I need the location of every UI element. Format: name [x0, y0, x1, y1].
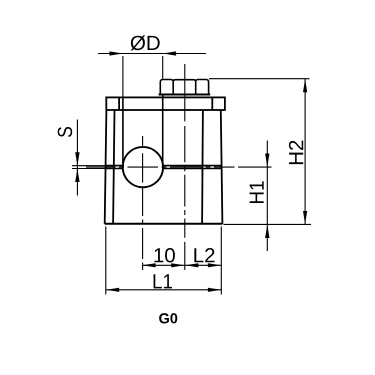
dimension OD — [98, 54, 206, 167]
H2 dimension line — [304, 79, 306, 224]
L1 arrow left — [106, 288, 119, 292]
OD extension line left — [122, 56, 124, 97]
bore edge line right upper half — [162, 95, 164, 166]
H1 dimension line — [266, 141, 268, 252]
OD label — [131, 35, 160, 50]
body outer edge left — [105, 110, 107, 224]
10 arrow right — [171, 263, 184, 267]
L1 extension line left — [105, 227, 107, 295]
L1 dimension line — [106, 289, 222, 291]
S arrow upper — [75, 152, 79, 165]
L2 arrow left — [185, 263, 198, 267]
L2 label — [194, 248, 214, 262]
bore edge line left upper half — [122, 97, 124, 166]
body inner edge right — [201, 110, 204, 224]
S label — [58, 127, 73, 137]
cover plate left step line — [118, 97, 120, 110]
OD arrow left — [110, 51, 123, 55]
bolt vertical centerline — [184, 64, 186, 270]
clamp body cover plate — [106, 97, 225, 110]
bolt head facet line left — [172, 81, 174, 95]
slot upper line right — [163, 165, 222, 167]
L2 arrow right — [208, 263, 221, 267]
H2 arrow top — [303, 79, 307, 92]
body bottom edge — [105, 223, 223, 225]
dimension L1 — [106, 289, 222, 291]
H1 H2 extension line bottom — [224, 223, 312, 225]
cover plate right step line — [211, 97, 213, 110]
OD arrow right — [163, 51, 176, 55]
dimension H2 — [209, 79, 311, 225]
bolt head outline — [160, 80, 208, 95]
bolt head facet line right — [195, 81, 197, 95]
L1 label — [154, 274, 173, 288]
OD extension line right upper — [162, 56, 164, 79]
10 L2 dimension line — [142, 264, 221, 266]
S arrow lower — [75, 169, 79, 182]
hex bolt head — [159, 80, 211, 95]
clamp body halves — [105, 110, 223, 224]
H2 extension line top — [209, 78, 309, 80]
S extension line lower — [72, 168, 106, 170]
dimension 10 and L2 — [106, 227, 222, 295]
slot upper line left — [106, 165, 124, 167]
H1 arrow top — [265, 154, 269, 167]
body outer edge right — [221, 110, 223, 224]
S extension line upper — [72, 165, 106, 167]
bolt head bottom edge — [159, 94, 211, 96]
part name G0 — [159, 313, 177, 323]
OD dimension line — [98, 53, 206, 55]
10 label — [154, 248, 174, 263]
10 arrow left — [142, 263, 155, 267]
H1 label — [250, 181, 264, 203]
bore vertical centerline — [142, 136, 144, 270]
bore horizontal centerline — [86, 166, 272, 168]
body inner edge left — [113, 110, 114, 224]
H1 arrow bottom — [265, 225, 269, 238]
L1 arrow right — [208, 288, 221, 292]
slot lower line left — [106, 168, 124, 170]
dimension S — [72, 120, 106, 196]
H2 label — [289, 141, 303, 164]
S dimension line — [76, 120, 78, 196]
L1 L2 extension line right — [220, 227, 222, 295]
slot lower line right — [163, 168, 222, 170]
H2 arrow bottom — [303, 211, 307, 224]
clamp bore circle — [123, 147, 163, 187]
centerlines — [86, 64, 272, 270]
dimension H1 — [266, 141, 268, 252]
